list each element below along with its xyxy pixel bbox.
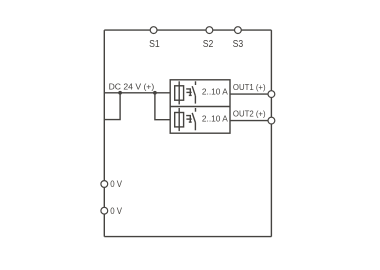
- terminal OUT2: [268, 117, 275, 124]
- node junction dot 2: [153, 91, 157, 95]
- switch S2a bottom stub: [194, 123, 196, 131]
- module U1 outline (2-channel electronic breaker): [170, 80, 230, 133]
- svg-text:0 V: 0 V: [110, 206, 122, 216]
- svg-text:OUT2 (+): OUT2 (+): [233, 109, 266, 119]
- svg-text:S1: S1: [149, 39, 160, 50]
- terminal S1: [150, 27, 157, 34]
- wire OUT2 to terminal: [230, 120, 268, 122]
- terminal OUT1: [268, 91, 275, 98]
- wire top bus S1-S2-S3: [104, 29, 271, 31]
- actuator bar a channel 2: [186, 118, 191, 120]
- wire drop from junction 2 to channel 2 input: [155, 93, 170, 120]
- wire bottom return: [104, 236, 271, 238]
- switch S1a blade: [192, 86, 195, 96]
- node junction dot 1: [118, 91, 122, 95]
- svg-text:DC 24 V (+): DC 24 V (+): [109, 81, 155, 91]
- switch S1a bottom stub: [194, 96, 196, 104]
- svg-text:0 V: 0 V: [110, 179, 122, 189]
- wire OUT1 to terminal: [230, 93, 268, 95]
- wire DC 24 V feed: [104, 92, 170, 94]
- svg-text:S3: S3: [233, 39, 244, 50]
- svg-text:S2: S2: [203, 39, 214, 50]
- fuse F2 body: [175, 113, 184, 127]
- fuse F1 body: [175, 86, 184, 100]
- fuse F2 through-line: [178, 108, 180, 131]
- fuse F1 through-line: [178, 81, 180, 104]
- switch S1a top stub: [195, 81, 197, 85]
- actuator bar b channel 2: [189, 121, 192, 123]
- switch S2a top stub: [195, 108, 197, 112]
- wire left rail 0V: [103, 30, 105, 237]
- wire right rail outputs: [270, 30, 272, 237]
- terminal S2: [206, 27, 213, 34]
- switch S2a blade: [192, 113, 195, 123]
- actuator bar b channel 1: [189, 94, 192, 96]
- svg-text:OUT1 (+): OUT1 (+): [233, 82, 266, 92]
- terminal S3: [235, 27, 242, 34]
- module channel divider: [170, 106, 230, 108]
- actuator bar a channel 1: [186, 91, 191, 93]
- svg-text:2..10 A: 2..10 A: [202, 87, 228, 97]
- terminal 0V upper: [101, 181, 108, 188]
- wire drop from junction 1 to left rail: [104, 93, 120, 120]
- actuator link channel 1: [186, 89, 190, 96]
- svg-text:2..10 A: 2..10 A: [202, 113, 228, 123]
- terminal 0V lower: [101, 207, 108, 214]
- actuator link channel 2: [186, 116, 190, 123]
